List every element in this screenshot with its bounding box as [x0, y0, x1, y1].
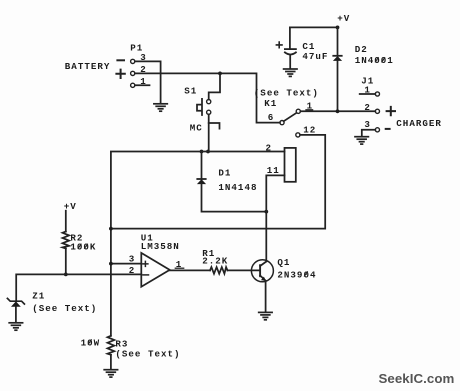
node D1 mid rail junction	[200, 150, 204, 154]
node battery rail junction	[218, 72, 222, 76]
op-amp pin 1 underline	[175, 267, 183, 269]
zener Z1	[7, 298, 24, 306]
battery plus sign	[116, 70, 124, 78]
K1 pin 1 underline	[306, 109, 313, 111]
node pin3 junction	[109, 262, 113, 266]
node D1 collector junction	[264, 210, 268, 214]
relay K1 coil box	[285, 148, 296, 182]
ground under C1	[284, 69, 297, 76]
wire junction to S1 top	[209, 73, 220, 99]
svg-text:Z1: Z1	[32, 290, 45, 301]
wire MC hook stub	[209, 123, 220, 129]
Q1 base bar	[259, 265, 261, 276]
ground under P1	[154, 104, 167, 111]
wire mid rail and left vertical to R3	[111, 152, 285, 370]
switch S1 plunger actuator	[197, 99, 202, 115]
svg-text:MC: MC	[190, 122, 203, 133]
charger minus sign	[386, 128, 390, 130]
ground under J1 pin3	[355, 137, 368, 144]
node S1 mid rail junction	[206, 150, 210, 154]
capacitor C1	[285, 49, 296, 54]
svg-text:1N4148: 1N4148	[218, 182, 257, 193]
svg-text:Q1: Q1	[277, 257, 290, 268]
wire C1 to ground	[289, 55, 291, 69]
wire D2 cathode lead	[337, 27, 339, 55]
svg-text:2N3904: 2N3904	[277, 269, 316, 280]
svg-text:D2: D2	[355, 44, 368, 55]
wire Q1 emitter to ground	[265, 281, 267, 312]
svg-text:K1: K1	[264, 98, 277, 109]
svg-text:(See Text): (See Text)	[32, 303, 97, 314]
wire J1 pin3 to ground	[362, 130, 376, 137]
ground under Q1	[259, 312, 272, 319]
connector J1 pin circles	[375, 92, 379, 132]
wire op-amp pin3	[111, 263, 141, 265]
diode D1	[197, 179, 206, 184]
op-amp minus input sign	[143, 274, 149, 276]
wire op-amp output to R1	[170, 269, 210, 271]
svg-text:BATTERY: BATTERY	[65, 61, 111, 72]
svg-text:10W: 10W	[81, 337, 101, 348]
svg-text:CHARGER: CHARGER	[396, 118, 442, 129]
wire P1 pin2 battery positive rail	[135, 73, 280, 122]
C1 plus sign	[276, 42, 282, 48]
svg-text:(See Text): (See Text)	[254, 87, 319, 98]
wire K1 pin12 to left rail	[111, 135, 325, 229]
wire D1 branch top	[201, 152, 203, 180]
svg-text:2: 2	[266, 142, 273, 153]
node D2 J1 junction	[336, 109, 340, 113]
wire C1 lead	[289, 27, 291, 49]
svg-text:6: 6	[268, 112, 275, 123]
resistor R3 zigzag	[108, 336, 115, 355]
resistor R2 zigzag	[63, 232, 70, 249]
svg-text:2: 2	[364, 102, 371, 113]
node +V junction	[336, 26, 340, 30]
svg-text:S1: S1	[184, 85, 197, 96]
svg-text:3: 3	[364, 119, 371, 130]
Q1 emitter stroke	[260, 276, 266, 281]
svg-text:2: 2	[129, 265, 136, 276]
node pin12 left rail junction	[109, 227, 113, 231]
svg-text:LM358N: LM358N	[141, 241, 180, 252]
svg-text:2.2K: 2.2K	[202, 256, 228, 267]
svg-text:1N4001: 1N4001	[355, 55, 394, 66]
svg-text:D1: D1	[218, 168, 231, 179]
connector P1 pin circles	[131, 59, 135, 87]
wire S1 bottom to mid rail	[208, 114, 210, 151]
switch S1 contact circles	[207, 100, 211, 115]
wire K1 pin1 to J1 pin2	[300, 110, 375, 112]
diode D2	[333, 56, 342, 61]
ground under Z1	[9, 323, 22, 330]
wire K1 coil pin 11 to Q1 collector	[266, 175, 284, 261]
wire Z1 to ground	[15, 307, 17, 323]
wire D2 anode to J1 pin2 rail	[337, 61, 339, 112]
wire R1 to Q1 base	[228, 269, 261, 271]
wire P1 pin3 to ground	[135, 61, 161, 103]
node R2 reference junction	[64, 273, 68, 277]
wire Z1 reference rail to op-amp pin2	[16, 274, 141, 301]
svg-text:100K: 100K	[70, 242, 96, 253]
ground under R3	[104, 370, 117, 377]
svg-text:12: 12	[303, 125, 316, 136]
wire C1 top to +V node	[290, 26, 338, 28]
op-amp plus input sign	[143, 261, 148, 266]
svg-text:SeekIC.com: SeekIC.com	[379, 371, 455, 386]
svg-text:11: 11	[267, 165, 280, 176]
wire P1 pin1 stub	[135, 84, 150, 86]
wire R2 to reference rail	[65, 249, 67, 275]
svg-text:(See Text): (See Text)	[115, 348, 180, 359]
transistor Q1 circle	[251, 260, 273, 282]
K1 contact arm	[284, 113, 297, 121]
wire D1 anode to junction	[202, 184, 267, 212]
resistor R1 zigzag	[210, 267, 228, 274]
svg-text:3: 3	[129, 254, 136, 265]
op-amp U1 triangle	[141, 253, 169, 287]
svg-text:47uF: 47uF	[302, 51, 328, 62]
wire +V to R2	[65, 211, 67, 232]
charger plus sign	[387, 107, 395, 115]
Q1 collector stroke	[260, 262, 266, 267]
svg-text:+V: +V	[337, 13, 350, 24]
Q1 emitter arrowhead	[261, 277, 266, 281]
battery minus sign	[117, 59, 124, 61]
K1 contact pin circles	[280, 109, 301, 137]
wire J1 pin1 stub	[360, 93, 376, 95]
